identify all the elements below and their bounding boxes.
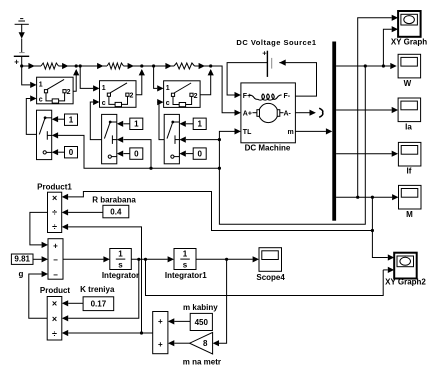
wire bus tap to breaker2 input 1 (80, 66, 93, 88)
node E breaker3 return (209, 64, 212, 67)
svg-text:If: If (407, 167, 412, 176)
constant K treniya 0.17 (83, 297, 114, 311)
svg-text:+: + (262, 49, 267, 58)
constant zero3 (193, 148, 206, 159)
wire const zero1 to switch1 (58, 151, 64, 153)
XY graph XY Graph2 (385, 253, 426, 287)
node C breaker2 return (140, 64, 143, 67)
svg-text:F+: F+ (243, 93, 251, 100)
wire switch2 output to breaker2 c (90, 102, 101, 140)
wire Integrator output to Integrator1 (131, 258, 167, 260)
svg-text:Scope4: Scope4 (256, 273, 285, 282)
wire bus node D to R3 (154, 65, 174, 67)
wire 0.4 to Product1 divide (68, 211, 103, 213)
constant R barabana 0.4 (103, 205, 129, 218)
wire Sum output to Integrator (63, 258, 103, 260)
wire Product1 output to Sum plus (30, 212, 48, 245)
wire m output to demux (295, 130, 326, 132)
svg-text:450: 450 (195, 318, 209, 327)
node total mass branch (140, 331, 143, 334)
breaker Breaker2 (100, 81, 137, 108)
node control distribution (218, 167, 221, 170)
svg-text:1: 1 (102, 85, 106, 92)
svg-text:2: 2 (194, 93, 198, 100)
product block Product1 (48, 192, 62, 232)
svg-text:÷: ÷ (52, 222, 57, 232)
scope W (398, 54, 421, 88)
svg-text:Integrator: Integrator (102, 271, 139, 280)
node M feedback branch (371, 229, 374, 232)
breaker Breaker3 (164, 81, 201, 108)
wire breaker1 port2 return to bus (73, 70, 76, 91)
constant one3 (193, 118, 206, 129)
svg-text:m na metr: m na metr (183, 358, 221, 367)
svg-text:m kabiny: m kabiny (183, 303, 218, 312)
svg-text:+: + (158, 340, 163, 349)
resistor R2 (107, 63, 124, 69)
node M tap XY1 (356, 196, 359, 199)
svg-text:g: g (19, 270, 24, 279)
wire const one2 to switch2 (123, 123, 129, 125)
node control to switch3 (218, 138, 221, 141)
wire arrow to battery (21, 39, 23, 53)
wire battery to bus node (21, 56, 23, 66)
wire M output (336, 196, 392, 198)
svg-text:×: × (52, 314, 57, 324)
svg-text:Integrator1: Integrator1 (165, 271, 207, 280)
wire If output (336, 153, 392, 155)
scope M (399, 185, 422, 219)
svg-text:M: M (406, 210, 413, 219)
svg-text:DC Voltage Source1: DC Voltage Source1 (236, 38, 316, 47)
svg-text:+: + (14, 57, 19, 66)
wire W tap up to XY Graph input2 (383, 29, 391, 66)
open port hook (319, 108, 323, 117)
wire control to switch2 middle (123, 140, 151, 169)
switch Switch2 (102, 114, 117, 163)
node speed to Product (137, 258, 140, 261)
battery DC source (14, 53, 29, 67)
svg-text:0.17: 0.17 (91, 300, 107, 309)
wire control to switch3 middle (186, 139, 220, 141)
wire M signal up to XY Graph input1 (358, 18, 392, 197)
node B tap to breaker2 (79, 64, 82, 67)
svg-text:K treniya: K treniya (80, 285, 115, 294)
svg-text:m: m (288, 129, 294, 136)
adder block Add (153, 312, 168, 354)
svg-text:+: + (158, 317, 163, 326)
svg-text:1: 1 (197, 120, 202, 129)
wire control distribution to switch1 middle (58, 135, 219, 168)
sum block Sum (48, 239, 63, 280)
constant one1 (65, 114, 78, 125)
wire speed to XY Graph2 input2 (383, 269, 388, 271)
svg-text:Product: Product (40, 286, 71, 295)
svg-text:1: 1 (134, 120, 139, 129)
svg-text:c: c (102, 100, 106, 107)
wire bus segment battery to R1 (22, 65, 41, 67)
svg-text:W: W (404, 79, 412, 88)
switch Switch3 (164, 114, 179, 163)
wire 9.81 to Sum minus (33, 258, 42, 260)
svg-text:A-: A- (284, 111, 292, 118)
wire bus R1 to node A (59, 65, 81, 67)
constant zero1 (65, 147, 78, 158)
wire V1 plus to F+ (227, 63, 267, 95)
svg-text:−: − (53, 270, 58, 279)
scope If (398, 142, 421, 175)
wire position down to Gain (219, 259, 227, 343)
wire Integrator1 output to Scope4 (196, 258, 253, 260)
wire bus R2 to node C (124, 65, 154, 67)
wire speed down to Product times2 (68, 259, 139, 318)
svg-text:XY Graph: XY Graph (391, 38, 427, 47)
svg-text:DC Machine: DC Machine (245, 143, 291, 152)
demux bar (332, 42, 336, 221)
wire bus tap to breaker3 input 1 (154, 66, 158, 88)
wire breaker2 port2 return to bus (136, 70, 142, 95)
node M tap down (371, 196, 374, 199)
wire speed to XY Graph2 input2 long (146, 259, 384, 295)
svg-text:1: 1 (183, 250, 188, 259)
wire const zero3 to switch3 (186, 153, 193, 155)
constant zero2 (130, 148, 143, 159)
svg-text:×: × (52, 193, 57, 203)
svg-text:0.4: 0.4 (110, 207, 122, 216)
integrator block Integrator1 (165, 249, 207, 280)
wire bus node B to R2 (80, 65, 107, 67)
wire breaker3 port2 return to bus (200, 70, 211, 95)
wire 0.17 to Product (68, 302, 83, 304)
DC Machine U1 (241, 83, 296, 152)
svg-text:F-: F- (284, 93, 291, 100)
wire battery node down to breaker 1 input (22, 66, 31, 85)
wire const one1 to switch1 (58, 118, 64, 120)
wire const one3 to switch3 (186, 123, 193, 125)
wire bus node E to armature A+ (211, 66, 235, 113)
svg-text:0: 0 (134, 149, 139, 158)
svg-text:0: 0 (197, 149, 202, 158)
wire A- open end (295, 112, 309, 114)
wire Product output to Sum minus2 (29, 274, 47, 318)
svg-text:1: 1 (39, 82, 43, 89)
gain block m na metr (183, 332, 221, 366)
svg-text:1: 1 (69, 116, 74, 125)
svg-text:XY Graph2: XY Graph2 (385, 278, 426, 287)
node battery-bus (20, 64, 23, 67)
svg-text:÷: ÷ (52, 329, 57, 339)
svg-text:Product1: Product1 (37, 183, 72, 192)
ground (15, 19, 29, 25)
svg-text:1: 1 (118, 250, 123, 259)
wire const zero2 to switch2 (123, 153, 129, 155)
svg-text:8: 8 (203, 339, 208, 348)
scope Scope4 (256, 248, 285, 282)
svg-text:2: 2 (130, 93, 134, 100)
wire M feedback to Product1 (68, 192, 372, 231)
wire switch1 output to breaker1 c (26, 99, 36, 135)
svg-text:÷: ÷ (52, 207, 57, 217)
svg-text:−: − (53, 256, 58, 265)
wire Gain to Add (174, 342, 189, 344)
constant g 9.81 (11, 254, 33, 264)
node W to XY graph (382, 64, 385, 67)
wire W output (336, 65, 390, 67)
wire ground to arrow (21, 24, 23, 32)
resistor R1 (41, 63, 59, 69)
breaker Breaker1 (37, 77, 74, 104)
wire 450 to Add (174, 320, 190, 322)
wire Add output to Product divide (68, 332, 153, 334)
wire M tap down to XY Graph2 input1 (372, 197, 387, 257)
wire W feedback from demux down-left-up to TL (219, 66, 365, 224)
svg-text:A+: A+ (243, 111, 252, 118)
switch Switch1 (37, 110, 52, 159)
constant one2 (130, 118, 143, 129)
svg-text:1: 1 (166, 85, 170, 92)
wire total mass up to Product1 divide2 (68, 227, 141, 333)
constant m kabiny 450 (190, 313, 212, 330)
svg-text:s: s (183, 261, 188, 270)
node control to switch2 (149, 167, 152, 170)
XY graph XY Graph (391, 11, 427, 47)
resistor R3 (174, 63, 195, 69)
node speed to XY Graph2 (144, 258, 147, 261)
node position tap (225, 258, 228, 261)
wire F- return to V1 (279, 63, 316, 97)
svg-text:s: s (118, 261, 123, 270)
svg-text:2: 2 (67, 89, 71, 96)
svg-text:TL: TL (243, 129, 252, 136)
svg-text:×: × (52, 298, 57, 308)
wire switch3 output to breaker3 c (157, 102, 164, 140)
svg-text:c: c (39, 97, 43, 104)
arrow into battery (19, 32, 25, 38)
svg-text:Ia: Ia (405, 123, 412, 132)
svg-text:0: 0 (69, 148, 74, 157)
DC voltage source V1 (262, 49, 271, 77)
svg-text:c: c (166, 100, 170, 107)
svg-text:+: + (53, 241, 58, 250)
svg-text:9.81: 9.81 (14, 255, 30, 264)
wire Ia output (336, 109, 392, 111)
product block Product (47, 297, 62, 341)
node D tap to breaker3 (152, 64, 155, 67)
scope Ia (398, 98, 421, 132)
wire bus R3 to node E (195, 65, 211, 67)
node W tap (364, 64, 367, 67)
node A breaker1 return (75, 64, 78, 67)
svg-text:R barabana: R barabana (92, 195, 136, 204)
integrator block Integrator (102, 249, 139, 280)
